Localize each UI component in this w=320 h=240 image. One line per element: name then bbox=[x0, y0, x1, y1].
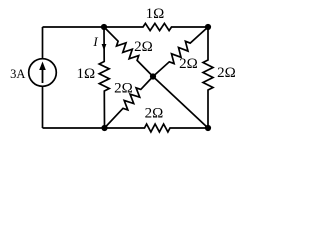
svg-text:I: I bbox=[92, 34, 98, 49]
svg-text:2Ω: 2Ω bbox=[145, 106, 164, 122]
svg-text:3A: 3A bbox=[10, 67, 25, 81]
svg-text:2Ω: 2Ω bbox=[217, 65, 236, 81]
svg-text:1Ω: 1Ω bbox=[76, 66, 95, 82]
svg-text:2Ω: 2Ω bbox=[134, 39, 153, 55]
svg-text:2Ω: 2Ω bbox=[179, 56, 198, 72]
svg-text:2Ω: 2Ω bbox=[114, 81, 133, 97]
svg-text:1Ω: 1Ω bbox=[146, 6, 165, 22]
